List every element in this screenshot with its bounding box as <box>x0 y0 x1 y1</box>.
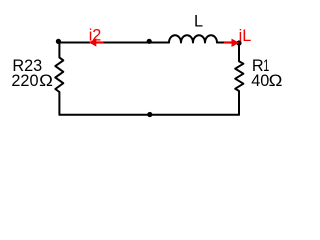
svg-text:Ω: Ω <box>39 72 53 90</box>
svg-text:iL: iL <box>239 27 252 45</box>
svg-text:Ω: Ω <box>269 72 283 90</box>
svg-text:L: L <box>194 13 203 31</box>
svg-text:40: 40 <box>251 72 269 90</box>
svg-text:220: 220 <box>11 72 38 90</box>
svg-text:i2: i2 <box>89 27 102 45</box>
